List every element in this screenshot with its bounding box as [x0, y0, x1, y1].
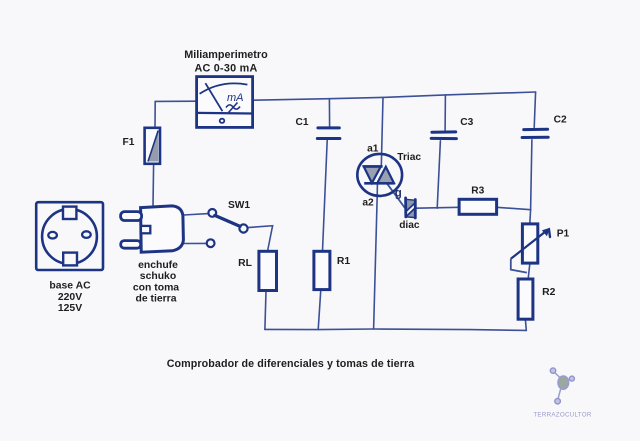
svg-text:C1: C1 [295, 117, 308, 128]
svg-text:C2: C2 [554, 115, 567, 126]
svg-text:SW1: SW1 [228, 200, 250, 211]
svg-text:con toma: con toma [133, 282, 179, 293]
svg-text:mA: mA [227, 92, 244, 104]
svg-text:RL: RL [238, 258, 253, 269]
svg-text:g: g [395, 188, 402, 200]
svg-text:a2: a2 [362, 198, 374, 209]
svg-text:220V: 220V [58, 292, 82, 303]
svg-text:F1: F1 [123, 137, 135, 148]
svg-text:TERRAZOCULTOR: TERRAZOCULTOR [533, 412, 592, 419]
svg-text:Miliamperimetro: Miliamperimetro [184, 49, 268, 61]
svg-text:Comprobador de diferenciales y: Comprobador de diferenciales y tomas de … [167, 358, 415, 370]
svg-text:a1: a1 [367, 143, 379, 154]
svg-text:de tierra: de tierra [135, 294, 176, 305]
svg-text:AC 0-30 mA: AC 0-30 mA [194, 63, 257, 75]
svg-text:R2: R2 [542, 287, 556, 298]
svg-text:base AC: base AC [49, 281, 91, 292]
svg-text:P1: P1 [557, 228, 570, 239]
svg-text:125V: 125V [58, 303, 82, 314]
svg-text:R3: R3 [471, 186, 484, 197]
svg-text:schuko: schuko [140, 271, 176, 282]
svg-text:C3: C3 [460, 117, 473, 128]
svg-text:R1: R1 [337, 256, 351, 267]
svg-text:enchufe: enchufe [138, 260, 178, 271]
svg-text:diac: diac [399, 220, 420, 231]
svg-text:Triac: Triac [397, 152, 421, 163]
